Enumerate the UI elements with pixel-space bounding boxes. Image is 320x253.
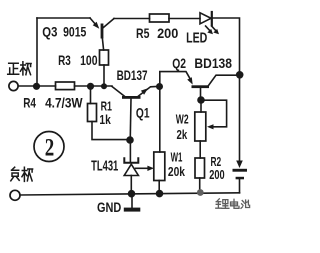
resistor R4 xyxy=(56,82,75,90)
svg-text:Q1: Q1 xyxy=(136,106,150,121)
battery xyxy=(233,161,248,193)
svg-text:9015: 9015 xyxy=(63,23,86,39)
wire W2 wiper loop xyxy=(201,100,227,129)
resistor R1 xyxy=(88,90,127,140)
TL431 xyxy=(124,140,154,190)
transistor Q3 xyxy=(90,18,114,50)
node A junction dot xyxy=(33,83,40,90)
svg-text:4.7/3W: 4.7/3W xyxy=(45,94,83,110)
transistor Q1 xyxy=(112,87,157,137)
label 负极 xyxy=(11,167,33,181)
wire right edge xyxy=(213,18,239,161)
terminal positive 正极 xyxy=(9,81,18,90)
svg-text:200: 200 xyxy=(209,167,224,182)
circled figure number 2 xyxy=(34,132,64,162)
resistor R5 xyxy=(150,14,170,22)
svg-text:100: 100 xyxy=(80,52,98,68)
bus negative rail xyxy=(20,193,239,195)
svg-text:R4: R4 xyxy=(23,94,36,110)
svg-text:Q3: Q3 xyxy=(42,23,57,39)
potentiometer W2 xyxy=(195,100,206,158)
svg-text:1k: 1k xyxy=(99,112,111,127)
resistor R3 xyxy=(100,50,109,65)
terminal negative 负极 xyxy=(10,190,20,200)
junction dot Q2 base xyxy=(197,96,205,104)
resistor R2 xyxy=(195,158,205,190)
svg-text:BD137: BD137 xyxy=(117,67,148,83)
junction dot R1 xyxy=(87,83,94,90)
svg-text:20k: 20k xyxy=(168,164,186,179)
wire positive rail xyxy=(18,85,112,87)
wire left vertical to top xyxy=(36,18,38,86)
junction dot ground xyxy=(128,190,136,198)
svg-text:Q2: Q2 xyxy=(172,55,186,71)
potentiometer W1 xyxy=(154,90,165,190)
svg-text:LED: LED xyxy=(186,31,207,47)
svg-text:200: 200 xyxy=(157,25,178,41)
svg-text:W2: W2 xyxy=(176,112,189,127)
svg-text:2: 2 xyxy=(45,134,55,161)
LED xyxy=(200,12,219,34)
label 正极 xyxy=(8,62,31,75)
svg-text:GND: GND xyxy=(97,199,121,215)
label battery 锂电池 xyxy=(216,199,250,209)
ground GND xyxy=(124,194,141,212)
junction dot W1 bottom xyxy=(156,190,164,198)
junction dot emitter node xyxy=(156,83,163,90)
wire node to Q2 emitter xyxy=(160,72,191,87)
svg-text:2k: 2k xyxy=(177,127,188,142)
junction dot R3 xyxy=(101,83,107,89)
transistor Q2 xyxy=(187,75,239,96)
svg-text:W1: W1 xyxy=(171,150,183,165)
junction dot R2 bottom gray xyxy=(197,189,204,196)
svg-text:R5: R5 xyxy=(136,25,150,41)
svg-text:TL431: TL431 xyxy=(91,158,118,174)
svg-text:BD138: BD138 xyxy=(194,55,232,71)
wire top rail xyxy=(37,17,200,20)
wire R3 to rail xyxy=(103,65,105,83)
junction dot collector xyxy=(236,71,244,79)
junction dot TL431 node xyxy=(126,136,134,144)
svg-text:R3: R3 xyxy=(58,52,71,68)
